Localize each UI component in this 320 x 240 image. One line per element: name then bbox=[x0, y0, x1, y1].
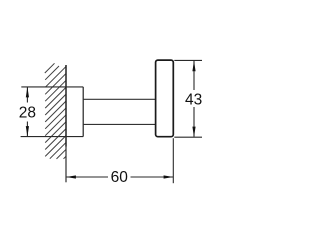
arm bottom edge bbox=[83, 123, 155, 125]
hatch stroke 13 bbox=[45, 135, 66, 156]
arrowhead 28 up bbox=[26, 87, 29, 98]
hatch stroke 16 bbox=[64, 156, 67, 159]
wall face line bbox=[65, 65, 67, 147]
hatch stroke 4 bbox=[45, 73, 66, 94]
wall hatching bbox=[45, 63, 66, 159]
extension line + plate top edge bbox=[21, 86, 83, 88]
dimension line 28 lower segment bbox=[26, 122, 28, 137]
hatch stroke 6 bbox=[45, 87, 66, 108]
hook block (rounded square front) bbox=[156, 60, 174, 137]
arrowhead 43 down bbox=[192, 127, 195, 138]
dimension line 60 left segment bbox=[67, 176, 109, 178]
dimension line 28 upper segment bbox=[26, 88, 28, 103]
svg-text:28: 28 bbox=[19, 105, 36, 122]
arrowhead 43 up bbox=[192, 61, 195, 72]
mounting plate right edge bbox=[82, 87, 84, 137]
svg-text:43: 43 bbox=[185, 92, 202, 109]
extension line for 60 (left, wall face extended) bbox=[65, 147, 67, 183]
hatch stroke 3 bbox=[45, 66, 66, 87]
hatch stroke 2 bbox=[45, 66, 59, 80]
hatch stroke 15 bbox=[57, 149, 67, 159]
svg-text:60: 60 bbox=[111, 169, 129, 186]
arm top edge bbox=[83, 98, 155, 100]
hatch stroke 8 bbox=[45, 101, 66, 122]
extension line + plate bottom edge bbox=[21, 136, 84, 138]
extension line 60 right bbox=[172, 138, 174, 183]
arrowhead 60 right bbox=[164, 175, 174, 178]
hatch stroke 14 bbox=[50, 142, 66, 158]
dimension line 43 lower segment bbox=[193, 107, 195, 137]
hatch stroke 1 bbox=[45, 63, 55, 73]
hatch stroke 7 bbox=[45, 94, 66, 115]
hatch stroke 11 bbox=[45, 122, 66, 143]
arrowhead 28 down bbox=[26, 126, 29, 137]
hatch stroke 5 bbox=[45, 80, 66, 101]
extension line 43 top bbox=[174, 59, 202, 61]
hatch stroke 10 bbox=[45, 115, 66, 136]
extension line 43 bottom bbox=[174, 136, 202, 138]
arrowhead 60 left bbox=[66, 175, 76, 178]
dimension line 60 right segment bbox=[131, 176, 174, 178]
dimension line 43 upper segment bbox=[193, 61, 195, 90]
hatch stroke 9 bbox=[45, 108, 66, 129]
hatch stroke 12 bbox=[45, 129, 66, 150]
